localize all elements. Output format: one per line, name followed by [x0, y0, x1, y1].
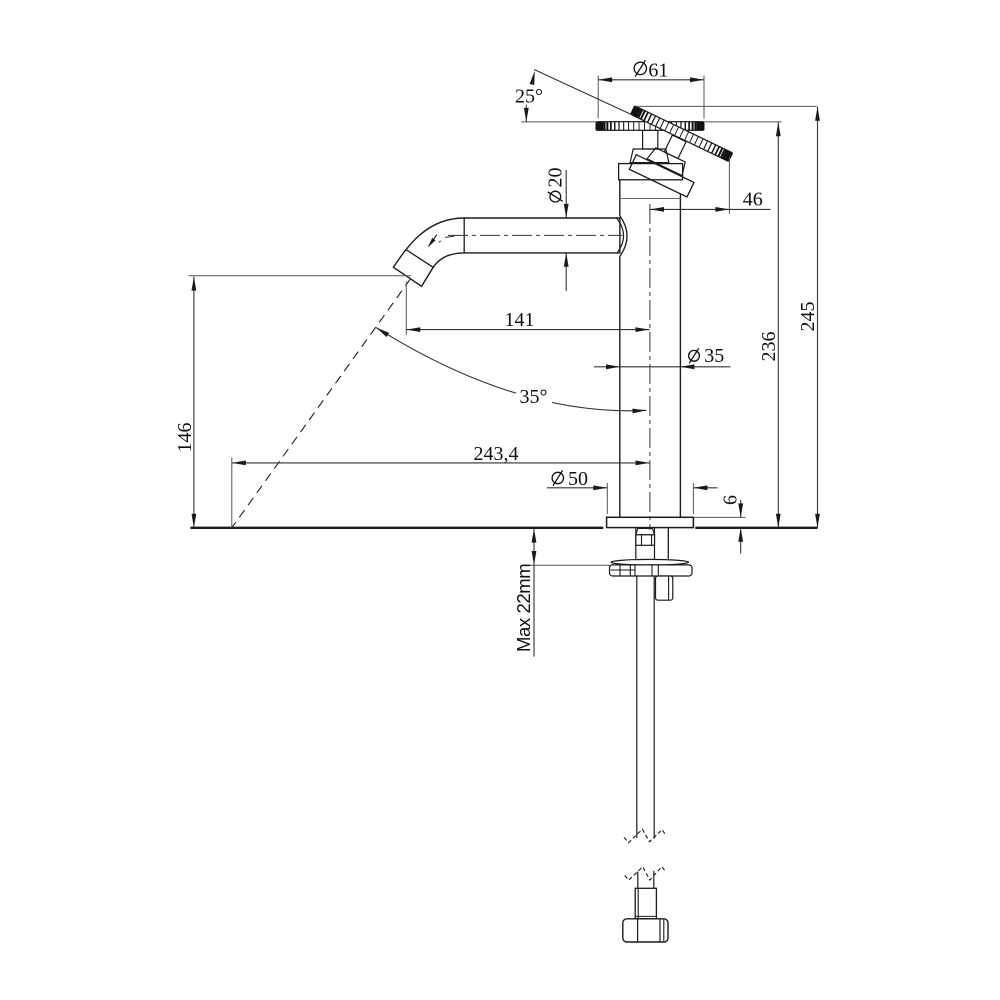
- supply hose lower stub: [638, 871, 654, 889]
- dimension 6: [695, 495, 746, 554]
- upright bonnet cap: [630, 149, 669, 163]
- dimension d35: [594, 345, 731, 369]
- valve assembly white fills (both positions): [619, 125, 709, 197]
- dimension 245: [797, 107, 820, 528]
- spout tube with bend and outlet tip: [393, 218, 620, 286]
- svg-text:35: 35: [704, 345, 724, 367]
- dimension 25 deg: [515, 70, 633, 122]
- water stream dashed axis 35 deg: [232, 279, 411, 528]
- svg-text:Max 22mm: Max 22mm: [513, 564, 534, 652]
- dimension d61: [598, 59, 704, 118]
- body centerline: [649, 204, 651, 530]
- body outline edges: [620, 180, 681, 518]
- svg-text:20: 20: [545, 168, 567, 188]
- spout centerline: [448, 234, 623, 236]
- svg-text:6: 6: [720, 495, 742, 505]
- mounting shank and nut under flange: [636, 528, 655, 560]
- svg-text:46: 46: [743, 189, 763, 211]
- tilted knurled handwheel (25 deg): [632, 106, 732, 161]
- upright valve collar: [619, 164, 683, 180]
- dimension 243,4: [232, 443, 650, 528]
- dimension 146: [174, 276, 411, 528]
- dimension d50: [547, 468, 718, 514]
- supply hose upper section: [637, 576, 654, 839]
- break line lower zigzag: [625, 867, 666, 881]
- svg-text:245: 245: [797, 302, 819, 332]
- hose end nut: [623, 919, 668, 942]
- svg-text:25°: 25°: [515, 86, 543, 108]
- spout-to-body junction sleeve arcs: [617, 216, 627, 256]
- svg-text:146: 146: [174, 423, 196, 453]
- hose connector sleeve: [635, 888, 656, 919]
- break line upper zigzag: [624, 829, 666, 843]
- dimension 35 deg arc: [375, 325, 647, 413]
- dimension 46: [650, 157, 771, 214]
- svg-text:141: 141: [505, 309, 535, 331]
- svg-text:61: 61: [648, 59, 668, 81]
- bend axis dashes: [445, 236, 454, 237]
- svg-text:236: 236: [758, 332, 780, 362]
- horseshoe clamp plate: [610, 565, 693, 576]
- tilted valve collar, bonnet and stem outlines (open position): [629, 125, 708, 197]
- stud nut below plate: [656, 576, 673, 600]
- base flange disc: [607, 517, 694, 527]
- svg-text:35°: 35°: [520, 386, 548, 408]
- counter top surface line: [190, 527, 603, 529]
- wheel plane reference lines to right: [705, 121, 782, 123]
- flow direction mini arrow: [429, 235, 437, 246]
- washer lens plate: [611, 559, 689, 565]
- dimension d20: [545, 168, 569, 292]
- svg-text:243,4: 243,4: [474, 443, 519, 465]
- faucet body cylinder: [620, 180, 681, 517]
- horizontal knurled handwheel: [597, 122, 702, 131]
- fixing stud: [667, 528, 669, 560]
- dimension 141: [406, 282, 649, 335]
- svg-text:50: 50: [568, 468, 588, 490]
- dimension Max 22mm: [513, 528, 611, 656]
- dimension 236: [758, 122, 781, 528]
- upright handle stem: [643, 130, 658, 149]
